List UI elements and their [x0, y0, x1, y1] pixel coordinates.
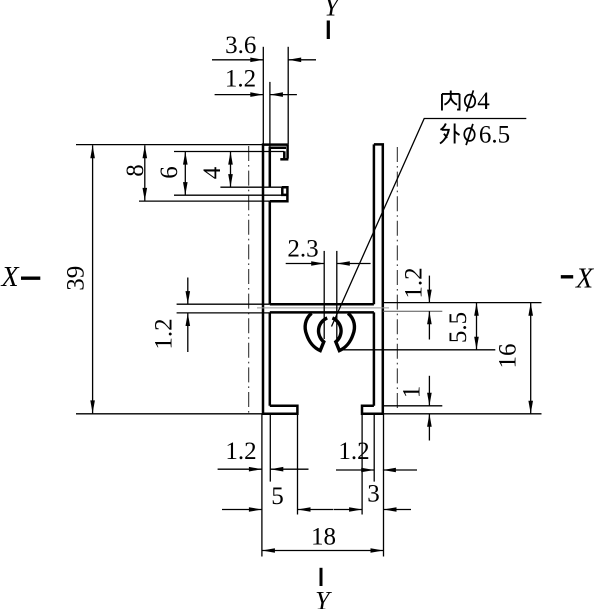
extension line: left wall inner down (1.2)	[269, 414, 271, 482]
extension line: left wall inner face up (1.2 right)	[269, 82, 271, 148]
svg-text:2.3: 2.3	[287, 236, 318, 263]
dimension 16 dim line	[530, 303, 532, 414]
profile outer contour: top face, left wall outer face, bottom-left foot	[263, 145, 297, 414]
dimension 5.5 dim line	[476, 303, 478, 350]
right vertical chain line	[396, 147, 398, 411]
web top face	[270, 303, 374, 306]
top lip inner face	[283, 151, 286, 158]
dimension 1.2 (bottom right) left part	[336, 469, 374, 471]
svg-text:6.5: 6.5	[479, 122, 510, 149]
extension line: top face extended left (39/8 top)	[76, 144, 263, 146]
dimension 18 dim line	[262, 550, 384, 552]
svg-text:Y: Y	[315, 587, 332, 609]
dimension 1.2 (web right) upper arrow	[428, 276, 430, 303]
svg-text:X: X	[575, 263, 594, 294]
svg-text:4: 4	[199, 166, 226, 179]
callout text 外 (outer)	[440, 124, 460, 144]
dimension 3 right part	[384, 509, 412, 511]
extension line: right wall left face down (1.2)	[373, 414, 375, 482]
extension line: left wall outer down (1.2/5/18)	[261, 414, 263, 557]
dimension 1 lower arrow	[428, 414, 430, 441]
dimension 5 left part	[222, 509, 262, 511]
extension line: boss bottom extended right (5.5)	[342, 349, 495, 351]
dimension 8 dim line	[144, 145, 146, 201]
dimension 1.2 (web left) upper arrow	[187, 278, 189, 305]
right wall left face (upper part)	[373, 144, 376, 304]
dimension 1.2 (bottom left) left part	[218, 468, 262, 470]
screw boss left arc (outer + inner)	[305, 313, 327, 350]
extension line: channel outer bottom (8 bottom)	[139, 200, 270, 202]
axis dash right (before X)	[561, 275, 573, 278]
svg-text:Y: Y	[324, 0, 341, 22]
web bottom face	[270, 311, 374, 314]
callout text phi (outer)	[463, 124, 475, 145]
leader line to screw boss	[332, 119, 527, 327]
extension line: right foot left edge down (3)	[361, 414, 363, 515]
svg-text:1: 1	[399, 386, 426, 399]
dimension 1.2 (web left) lower arrow	[187, 313, 189, 352]
dimension 3 left part	[334, 509, 363, 511]
svg-text:1.2: 1.2	[225, 66, 256, 93]
svg-text:1.2: 1.2	[401, 267, 428, 298]
extension line: web top extended right (1.2/5.5/16)	[383, 302, 542, 304]
svg-text:1.2: 1.2	[151, 318, 178, 349]
extension line: left foot right edge down (5)	[297, 406, 299, 515]
dimension 1.2 (bottom right) right part	[383, 469, 417, 471]
svg-text:1.2: 1.2	[338, 438, 369, 465]
top lip outer face	[286, 145, 289, 159]
extension line: web top extended left	[177, 303, 270, 305]
svg-text:39: 39	[63, 266, 90, 291]
svg-text:5: 5	[271, 483, 284, 510]
dimension 6 dim line	[184, 152, 186, 196]
extension line: web bottom extended right (1.2)	[383, 310, 443, 312]
extension line: channel inner bottom (6 bottom)	[174, 194, 282, 196]
extension line: foot top extended right (1 top)	[383, 405, 443, 407]
callout text phi (inner)	[464, 90, 476, 111]
axis dash left of X	[21, 277, 40, 280]
screw boss right arc (outer + inner)	[332, 313, 354, 350]
extension line: slot right edge (2.3 right)	[336, 251, 338, 340]
extension line: channel inner top (6 top)	[174, 151, 284, 153]
dimension 1.2 (bottom left) right part	[270, 468, 308, 470]
right wall left face (lower part)	[373, 312, 376, 405]
extension line: slot left edge (2.3 left)	[323, 251, 325, 339]
dimension 3.6 dim line right part	[288, 59, 316, 61]
bottom arm of channel: underside, right face, lip top	[270, 187, 288, 201]
svg-text:6: 6	[156, 166, 183, 179]
dimension 2.3 dim line right part	[337, 263, 371, 265]
top lip bottom face	[280, 158, 288, 161]
svg-text:1.2: 1.2	[225, 438, 256, 465]
dimension 39 dim line	[92, 145, 94, 413]
web mid chain line	[257, 307, 389, 309]
dimension 2.3 dim line left part	[286, 263, 325, 265]
dimension 4 dim line	[230, 152, 232, 188]
dimension 5 right part	[298, 509, 334, 511]
svg-text:8: 8	[122, 164, 149, 177]
extension line: left wall outer face up (3.6/1.2 left)	[262, 47, 264, 145]
extension line: foot bottom extended left (39 bottom)	[76, 413, 262, 415]
svg-text:16: 16	[495, 344, 522, 369]
left wall inner face (lower part)	[269, 312, 272, 405]
bottom lip inner face and arm top face	[282, 187, 287, 195]
extension line: web bottom extended left	[177, 312, 270, 314]
svg-text:X: X	[0, 262, 19, 293]
svg-text:18: 18	[311, 524, 336, 551]
axis tick Y (top)	[327, 21, 330, 40]
left wall inner face (middle part)	[269, 201, 272, 304]
axis tick Y (bottom)	[320, 568, 323, 586]
svg-text:5.5: 5.5	[445, 312, 472, 343]
extension line: channel right face up (3.6 right)	[287, 47, 289, 145]
extension line: bottom lip top (4 bottom)	[220, 186, 281, 188]
right wall outline with bottom-right foot	[362, 144, 383, 413]
svg-text:3: 3	[367, 481, 380, 508]
dimension 3.6 dim line left part	[212, 59, 263, 61]
svg-text:4: 4	[477, 88, 490, 115]
dimension 1.2 (top) dim line left part	[215, 94, 264, 96]
dimension 1.2 (top) dim line right part	[270, 94, 297, 96]
dimension 1.2 (web right) lower arrow	[428, 311, 430, 339]
svg-text:3.6: 3.6	[225, 32, 256, 59]
extension line: foot bottom extended right (1/16 bottom)	[383, 413, 542, 415]
left vertical chain line	[248, 146, 250, 414]
extension line: right wall right face down (1.2/3/18)	[383, 414, 385, 557]
dimension 1 upper arrow	[428, 376, 430, 406]
callout text 内 (inner)	[442, 91, 460, 111]
top arm underside and left wall inner face (upper part)	[270, 148, 286, 187]
